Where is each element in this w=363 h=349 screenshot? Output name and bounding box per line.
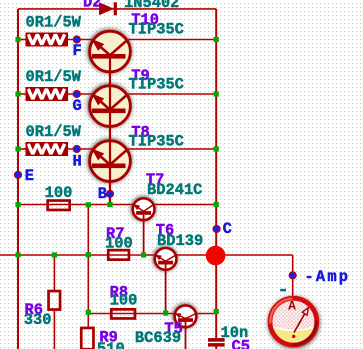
svg-text:TIP35C: TIP35C xyxy=(129,75,184,93)
svg-text:C: C xyxy=(223,220,232,238)
svg-text:100: 100 xyxy=(105,235,133,253)
svg-text:-Amp: -Amp xyxy=(305,268,351,286)
svg-text:0R1/5W: 0R1/5W xyxy=(26,123,82,141)
svg-text:C5: C5 xyxy=(232,338,250,349)
svg-text:D2: D2 xyxy=(83,0,101,11)
svg-text:F: F xyxy=(73,42,82,60)
svg-text:A: A xyxy=(288,300,296,314)
svg-text:H: H xyxy=(73,152,82,170)
svg-text:BC639: BC639 xyxy=(135,329,181,347)
svg-text:BD241C: BD241C xyxy=(147,181,202,199)
svg-text:E: E xyxy=(25,167,34,185)
svg-text:510: 510 xyxy=(97,340,125,349)
svg-text:G: G xyxy=(73,97,82,115)
svg-text:0R1/5W: 0R1/5W xyxy=(26,68,82,86)
svg-text:TIP35C: TIP35C xyxy=(129,21,184,39)
svg-text:0R1/5W: 0R1/5W xyxy=(26,14,82,32)
svg-text:BD139: BD139 xyxy=(157,232,203,250)
svg-text:330: 330 xyxy=(24,311,52,329)
svg-text:100: 100 xyxy=(110,292,138,310)
svg-text:B: B xyxy=(98,185,107,203)
svg-text:100: 100 xyxy=(45,184,73,202)
svg-text:TIP35C: TIP35C xyxy=(129,133,184,151)
